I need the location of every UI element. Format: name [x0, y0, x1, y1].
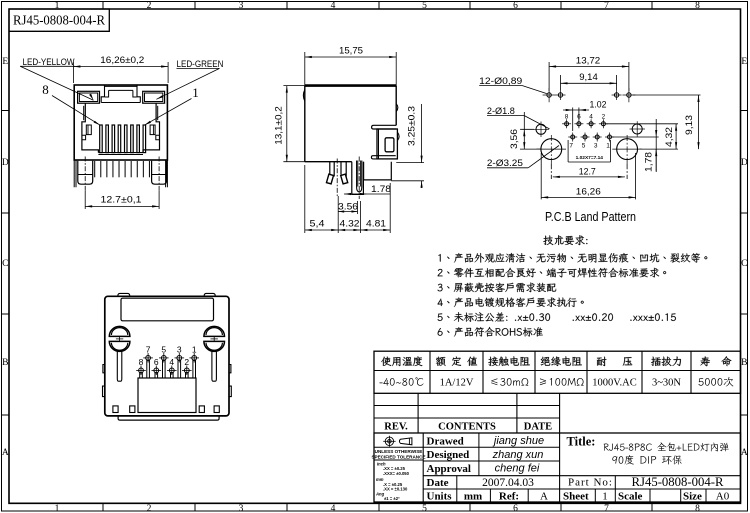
svg-text:5: 5 — [422, 504, 427, 513]
svg-text:7: 7 — [604, 504, 609, 513]
svg-text:1,78: 1,78 — [644, 152, 654, 172]
svg-text:8: 8 — [695, 1, 700, 11]
spec value 7 — [699, 377, 734, 387]
part number box top-left — [9, 9, 109, 31]
caption P.C.B Land Pattern — [545, 209, 636, 224]
svg-text:Scale: Scale — [618, 491, 643, 503]
svg-text:Date: Date — [427, 477, 449, 489]
technical requirement item 4 — [438, 297, 584, 307]
land pattern 2-Ø1.8 holes — [521, 121, 645, 137]
svg-text:12-Ø0,89: 12-Ø0,89 — [479, 76, 522, 86]
svg-text:Designed: Designed — [427, 449, 470, 461]
frame column numbers bottom — [55, 504, 701, 513]
land pattern 2-Ø3.25 mounting holes — [537, 135, 642, 163]
svg-text:E: E — [2, 57, 8, 67]
svg-text:UNLESS OTHERWISE: UNLESS OTHERWISE — [375, 449, 423, 454]
dimension 3,56 left — [509, 112, 541, 149]
svg-text:16,26±0,2: 16,26±0,2 — [100, 55, 144, 65]
label pin 8 callout — [42, 82, 100, 125]
svg-text:4: 4 — [331, 504, 336, 513]
front view left LED window — [78, 91, 100, 103]
svg-text:jiang shue: jiang shue — [492, 435, 544, 447]
svg-text:cheng fei: cheng fei — [495, 463, 540, 475]
svg-text:CONTENTS: CONTENTS — [438, 422, 496, 433]
bottom view bottom plate — [118, 416, 219, 420]
svg-text:A: A — [741, 448, 748, 458]
front view RJ45 jack - shell outline — [74, 85, 167, 160]
spec value 5 — [592, 378, 636, 389]
svg-text:3: 3 — [239, 504, 244, 513]
bottom view pins tall row 7-5-3-1 — [143, 344, 199, 378]
svg-text:2: 2 — [602, 114, 606, 121]
svg-text:LED-YELLOW: LED-YELLOW — [23, 57, 75, 67]
svg-text:8: 8 — [139, 357, 144, 367]
front view post centerlines — [85, 157, 159, 192]
svg-text:REV.: REV. — [384, 422, 408, 433]
svg-text:4: 4 — [169, 357, 174, 367]
bottom view latch window — [121, 298, 214, 321]
svg-text:Size: Size — [683, 491, 702, 503]
svg-text:1: 1 — [192, 85, 199, 100]
dimension 16,26 land pattern width — [541, 153, 635, 199]
dimension 3.25±0.3 standoff — [391, 104, 424, 188]
spec value 6 — [652, 378, 681, 389]
svg-text:D: D — [741, 158, 748, 168]
svg-text:LED-GREEN: LED-GREEN — [177, 59, 224, 69]
front view center latch bridge — [101, 85, 140, 103]
side view pin centerlines — [337, 157, 359, 200]
svg-text:12.7: 12.7 — [579, 167, 596, 177]
title block labels column — [427, 435, 471, 502]
bottom view pins short row 8-6-4-2 — [136, 357, 191, 378]
svg-text:Sheet: Sheet — [563, 491, 589, 503]
frame row letters right — [741, 57, 748, 458]
bottom view top latch tabs — [118, 293, 215, 296]
spec header 插拔力 — [651, 356, 681, 365]
svg-text:8: 8 — [695, 504, 700, 513]
svg-text:RJ45-0808-004-R: RJ45-0808-004-R — [13, 13, 105, 28]
dimension 9,13 right — [633, 95, 701, 149]
label 12-Ø0,89 with leader — [479, 76, 547, 94]
title text — [567, 435, 729, 465]
bottom view body outline — [105, 296, 229, 416]
svg-text:1.02: 1.02 — [590, 100, 607, 110]
svg-text:3~30N: 3~30N — [652, 378, 681, 389]
svg-text:A0: A0 — [716, 491, 730, 503]
label pin 1 callout — [144, 85, 198, 125]
dimension 12.7±0,1 post spacing — [85, 191, 159, 209]
specification table grid — [374, 351, 741, 393]
title block names — [464, 435, 548, 503]
svg-text:Part No:: Part No: — [568, 477, 613, 489]
front view right mounting post — [152, 161, 167, 185]
svg-text:.XXX= ±0.050: .XXX= ±0.050 — [383, 471, 410, 476]
svg-text:SPECIFIED TOLERANCE: SPECIFIED TOLERANCE — [371, 454, 425, 459]
dimension 1.02 pin pitch — [563, 100, 607, 132]
spec header 使用温度 — [381, 356, 422, 366]
spec value 1 — [379, 377, 423, 385]
technical requirement item 6 — [438, 327, 543, 337]
dimension 1.78 side — [344, 184, 391, 195]
svg-text:D: D — [2, 158, 9, 168]
spec header 接触电阻 — [488, 356, 530, 366]
land pattern signal pin holes bottom row 7-5-3-1 — [568, 133, 614, 150]
spec value 2 — [440, 378, 474, 389]
side view bent pin A — [326, 162, 334, 184]
svg-text:8: 8 — [565, 114, 569, 121]
svg-text:12.7±0,1: 12.7±0,1 — [101, 195, 142, 205]
land pattern LED pin holes 12-Ø0,89 — [543, 88, 636, 102]
svg-text:2-Ø1.8: 2-Ø1.8 — [487, 106, 515, 116]
title block grid — [374, 433, 741, 502]
label LED-YELLOW with leader — [20, 57, 93, 101]
dimension 13,72 LED pin span — [549, 55, 629, 91]
svg-text:Title:: Title: — [567, 435, 596, 449]
svg-text:4.81: 4.81 — [366, 219, 386, 229]
svg-text:13,72: 13,72 — [576, 55, 601, 65]
side view board-lock body — [371, 129, 397, 159]
frame column numbers top — [55, 1, 701, 11]
svg-text:P.C.B Land Pattern: P.C.B Land Pattern — [545, 209, 636, 224]
spec header 额定值 — [436, 357, 477, 366]
svg-text:2-Ø3.25: 2-Ø3.25 — [487, 158, 523, 168]
label 2-Ø1.8 with leader — [487, 106, 550, 129]
dimension 15,75 side width — [305, 46, 396, 86]
svg-text:4: 4 — [589, 114, 593, 121]
land pattern signal pin holes top row 8-6-4-2 — [562, 114, 608, 129]
dimension row 5,4 / 4.32 / 4.81 — [305, 165, 390, 233]
svg-text:7: 7 — [146, 344, 151, 354]
front view left mounting post — [78, 161, 93, 185]
technical requirement item 3 — [438, 283, 556, 292]
dimension 4,32 right — [605, 124, 678, 149]
spec value 3 — [491, 378, 528, 386]
svg-text:13,1±0,2: 13,1±0,2 — [274, 106, 284, 145]
svg-text:8: 8 — [42, 82, 49, 97]
svg-text:2: 2 — [184, 357, 189, 367]
bottom view bottom legs — [113, 406, 219, 413]
svg-text:4.32: 4.32 — [340, 219, 360, 229]
svg-text:6: 6 — [513, 1, 518, 11]
svg-text:Units: Units — [427, 491, 453, 503]
technical requirement item 1 — [438, 253, 707, 263]
svg-text:5,4: 5,4 — [310, 219, 325, 229]
svg-text:A: A — [2, 448, 9, 458]
svg-text:3.25±0.3: 3.25±0.3 — [407, 106, 417, 146]
svg-text:Ref:: Ref: — [499, 491, 519, 503]
svg-text:2: 2 — [147, 1, 152, 11]
part number row — [568, 474, 724, 489]
svg-text:9,14: 9,14 — [579, 72, 598, 82]
dimension 16,26±0,2 front width — [73, 55, 168, 83]
technical requirements heading — [543, 235, 587, 245]
svg-text:3,56: 3,56 — [509, 129, 519, 149]
svg-text:B: B — [741, 358, 747, 368]
svg-text:5: 5 — [161, 344, 166, 354]
bottom view left screw post — [109, 326, 130, 381]
side view board-lock ledge — [372, 125, 397, 129]
side view bottom profile and posts — [352, 162, 392, 195]
svg-text:±1 = ±2°: ±1 = ±2° — [384, 496, 400, 501]
svg-text:.XX = ±0.130: .XX = ±0.130 — [383, 487, 408, 492]
svg-text:2007.04.03: 2007.04.03 — [482, 477, 534, 489]
label 2-Ø3.25 with leader — [487, 146, 559, 169]
svg-text:3: 3 — [239, 1, 244, 11]
svg-text:1: 1 — [606, 143, 610, 150]
tolerance note text — [371, 449, 425, 501]
revision table headers — [384, 422, 552, 433]
svg-text:5: 5 — [582, 143, 586, 150]
front view jack cavity outline — [82, 103, 160, 154]
spec value 4 — [540, 378, 584, 386]
technical requirement item 2 — [438, 268, 666, 277]
dimension 1,78 right — [612, 119, 659, 172]
frame row letters left — [2, 57, 9, 458]
label LED-GREEN with leader — [156, 59, 223, 100]
side view right bumps — [396, 104, 399, 141]
front view solder legs — [95, 161, 150, 177]
svg-text:7: 7 — [604, 1, 609, 11]
svg-text:4,32: 4,32 — [664, 127, 674, 147]
technical requirement item 5 — [438, 312, 676, 322]
dimension 12.7 hole span — [551, 163, 627, 179]
svg-text:C: C — [2, 259, 8, 269]
front view right LED window — [143, 91, 165, 103]
svg-text:16,26: 16,26 — [576, 187, 601, 197]
svg-text:2: 2 — [147, 504, 152, 513]
sheet row — [563, 491, 730, 503]
svg-text:6: 6 — [513, 504, 518, 513]
bottom view right screw post — [204, 326, 225, 381]
svg-text:7: 7 — [569, 143, 573, 150]
svg-text:3: 3 — [177, 344, 182, 354]
third angle projection symbol — [383, 436, 412, 447]
dimension 9,14 inner LED pin span — [561, 72, 617, 90]
spec header 寿命 — [700, 356, 731, 366]
svg-text:C: C — [741, 259, 747, 269]
svg-text:1: 1 — [192, 344, 197, 354]
svg-text:4: 4 — [331, 1, 336, 11]
svg-text:9,13: 9,13 — [684, 115, 694, 135]
svg-text:1: 1 — [55, 504, 60, 513]
svg-text:E: E — [741, 57, 747, 67]
side view body outline — [305, 86, 396, 162]
land pattern pin row bracket 1.02X7=7.14 — [568, 140, 610, 162]
svg-text:3: 3 — [594, 143, 598, 150]
svg-text:Approval: Approval — [427, 463, 471, 475]
svg-text:1.02X7=7.14: 1.02X7=7.14 — [576, 155, 604, 161]
dimension 13,1±0,2 side height — [274, 86, 305, 162]
svg-text:Drawed: Drawed — [427, 435, 464, 447]
svg-text:1A/12V: 1A/12V — [440, 378, 474, 389]
svg-text:A: A — [540, 491, 548, 503]
bottom view side tabs — [103, 365, 232, 397]
svg-text:6: 6 — [154, 357, 159, 367]
svg-text:1000V.AC: 1000V.AC — [592, 378, 636, 389]
front view shell side skirts — [74, 160, 167, 187]
svg-text:DATE: DATE — [524, 422, 552, 433]
side view U-shaped shield pin — [357, 161, 362, 192]
svg-text:5: 5 — [422, 1, 427, 11]
side view bent pin B — [341, 162, 348, 184]
svg-text:zhang xun: zhang xun — [492, 449, 544, 461]
front view 8 contact pins — [100, 125, 146, 153]
svg-text:mm: mm — [464, 491, 482, 503]
spec header 耐压 — [597, 357, 632, 366]
spec header 绝缘电阻 — [541, 356, 582, 366]
svg-text:1.78: 1.78 — [371, 184, 391, 194]
svg-text:B: B — [2, 358, 8, 368]
bottom view contact block — [138, 378, 196, 413]
dimension 3.56 side — [338, 196, 358, 214]
revision table grid — [374, 393, 560, 433]
svg-text:1: 1 — [602, 491, 608, 503]
svg-text:3.56: 3.56 — [338, 201, 358, 211]
svg-text:15,75: 15,75 — [339, 46, 363, 56]
side view left latch bump — [303, 90, 304, 101]
svg-text:RJ45-0808-004-R: RJ45-0808-004-R — [632, 474, 724, 489]
